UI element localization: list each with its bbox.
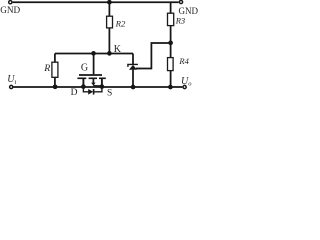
terminal circle top-left GND: [9, 1, 12, 4]
node junction dot top rail / R2: [107, 0, 112, 5]
svg-text:Ui: Ui: [7, 74, 16, 86]
node junction dot TL431 anode on bottom rail: [131, 85, 136, 90]
zener/TL431 U1 triangle: [129, 65, 137, 70]
node junction dot source on bottom rail: [100, 84, 105, 89]
transistor Q1 MOSFET source stem: [101, 78, 103, 87]
svg-text:S: S: [107, 88, 112, 96]
svg-text:G: G: [81, 62, 88, 73]
wire R4 bottom to output rail: [170, 71, 172, 87]
resistor R4: [168, 58, 174, 71]
svg-text:D: D: [71, 88, 78, 96]
svg-text:Uo: Uo: [181, 76, 192, 88]
svg-text:R3: R3: [175, 16, 185, 26]
wire gate lead: [93, 54, 95, 75]
svg-text:GND: GND: [0, 5, 20, 15]
resistor R1: [52, 62, 58, 77]
wire R1 bottom branch: [54, 77, 56, 87]
svg-text:R2: R2: [115, 19, 126, 29]
svg-text:R4: R4: [178, 56, 189, 66]
wire TL431 anode lead: [132, 70, 134, 87]
node junction dot divider R3/R4: [168, 41, 173, 46]
transistor Q1 MOSFET body stem with arrow: [91, 78, 102, 86]
wire node K horizontal line: [55, 53, 133, 55]
node junction dot K line / R2: [107, 51, 112, 56]
node junction dot R4 on bottom rail: [168, 85, 173, 90]
wire R3 top branch: [170, 2, 172, 13]
diode body diode of Q1: [83, 87, 102, 95]
terminal circle bottom-left Ui: [10, 85, 13, 88]
wire TL431 cathode lead: [132, 54, 134, 65]
wire R2 bottom to node K: [108, 28, 110, 54]
terminal circle top-right GND: [179, 0, 182, 3]
resistor R3: [168, 13, 174, 25]
node junction dot R1 on bottom rail: [53, 84, 58, 89]
resistor R2: [107, 16, 113, 28]
node junction dot drain on bottom rail: [81, 84, 86, 89]
terminal circle bottom-right Uo: [183, 85, 186, 88]
wire R3 bottom to divider node: [170, 26, 172, 58]
transistor Q1 MOSFET channel drain segment: [77, 77, 86, 79]
wire top rail: [13, 1, 179, 3]
zener/TL431 U1 reference lead: [136, 68, 141, 70]
svg-text:R: R: [43, 63, 50, 74]
wire R2 top branch: [108, 2, 110, 16]
transistor Q1 MOSFET channel body segment: [89, 77, 97, 79]
zener/TL431 U1 cathode bar: [128, 64, 138, 67]
svg-text:K: K: [114, 44, 122, 55]
transistor Q1 MOSFET gate electrode: [79, 74, 102, 76]
wire R1 top branch: [54, 54, 56, 63]
transistor Q1 MOSFET channel source segment: [99, 77, 106, 79]
node junction dot K line / gate: [91, 51, 96, 56]
wire bottom rail: [14, 86, 183, 88]
wire divider node to REF jog: [136, 43, 171, 69]
transistor Q1 MOSFET drain stem: [82, 78, 84, 87]
